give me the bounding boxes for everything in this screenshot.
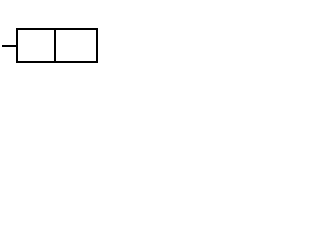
component box (right section of two-section body) <box>54 28 98 63</box>
component box (left section of two-section body) <box>16 28 56 63</box>
wire (left terminal lead) <box>2 45 16 47</box>
